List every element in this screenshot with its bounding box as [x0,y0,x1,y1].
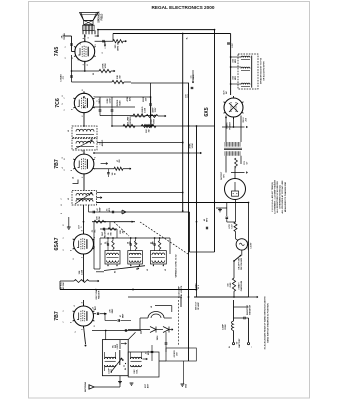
svg-text:MFD: MFD [235,75,237,80]
svg-text:2W: 2W [99,216,101,219]
svg-text:1W: 1W [148,129,150,132]
svg-text:7: 7 [63,322,65,323]
svg-text:470: 470 [106,242,109,245]
svg-text:MEASURED TO CHASSIS GND: MEASURED TO CHASSIS GND [284,181,287,212]
svg-text:6.3V: 6.3V [232,43,234,48]
svg-text:6: 6 [71,170,73,171]
svg-text:PADDER 2: PADDER 2 [97,288,100,299]
svg-text:VARIABLE COND. S1 S2: VARIABLE COND. S1 S2 [175,254,178,278]
svg-text:3: 3 [62,157,64,158]
svg-text:+: + [228,346,232,348]
svg-text:FUSE: FUSE [225,324,227,330]
svg-text:5: 5 [61,213,63,214]
svg-text:25 V: 25 V [198,284,200,289]
svg-text:MFD: MFD [235,58,237,63]
svg-text:7B7: 7B7 [54,159,60,169]
svg-text:MMF: MMF [112,308,114,313]
svg-text:MFD: MFD [148,350,150,355]
svg-text:DIAL LIGHTS: DIAL LIGHTS [180,285,183,298]
svg-text:S2: S2 [135,242,137,244]
svg-text:S3: S3 [115,271,117,273]
svg-text:RF AMP: RF AMP [197,302,200,310]
svg-text:MEG: MEG [99,98,101,103]
svg-text:1: 1 [64,110,66,111]
svg-text:6: 6 [94,326,96,327]
svg-text:GND: GND [186,383,188,388]
svg-text:7: 7 [64,98,66,99]
svg-text:6: 6 [71,250,73,251]
svg-text:8: 8 [82,230,84,231]
svg-text:150V: 150V [155,107,157,112]
svg-text:ON VOLUME: ON VOLUME [241,257,243,270]
svg-text:6: 6 [64,159,66,160]
svg-text:L1,L2,L3,L4 = 455 KC TRIM (2): L1,L2,L3,L4 = 455 KC TRIM (2) [271,182,274,212]
svg-text:2W: 2W [122,230,124,233]
svg-text:S1,S2,S3,S4 ARE REAR OF BAND S: S1,S2,S3,S4 ARE REAR OF BAND SWITCH AT A… [264,296,267,349]
svg-text:220: 220 [130,242,132,245]
svg-text:6X5: 6X5 [204,107,210,116]
svg-text:8: 8 [82,90,84,91]
svg-text:6: 6 [71,109,73,110]
svg-text:7C6: 7C6 [55,98,61,108]
svg-text:OHM: OHM [153,119,155,124]
svg-text:3: 3 [88,37,90,38]
svg-text:6: 6 [73,258,75,259]
svg-text:6: 6 [71,322,73,323]
svg-text:LOOP: LOOP [117,343,119,349]
svg-text:1: 1 [65,47,67,48]
svg-text:L9: L9 [151,306,153,308]
svg-text:-: - [250,346,254,347]
svg-text:6SA7: 6SA7 [54,237,60,250]
svg-text:8: 8 [94,246,96,247]
svg-text:ALL VOLTAGES AT 117V AC LINE: ALL VOLTAGES AT 117V AC LINE [281,180,284,214]
svg-text:C BIAS: C BIAS [60,74,63,82]
svg-text:2: 2 [82,329,84,330]
svg-text:MFD: MFD [206,217,208,222]
svg-text:2: 2 [64,170,66,171]
svg-text:6: 6 [62,95,64,96]
svg-text:1/2W: 1/2W [145,108,147,113]
svg-text:OHM 1W: OHM 1W [118,41,120,51]
svg-text:7: 7 [78,59,80,60]
svg-text:L2: L2 [147,269,149,271]
svg-text:AVC: AVC [94,305,97,310]
svg-text:470K: 470K [102,63,105,69]
svg-text:ALL RESISTORS 1/2 W UNLESS: ALL RESISTORS 1/2 W UNLESS [276,181,279,213]
svg-text:1: 1 [63,311,65,312]
svg-text:CONTROL: CONTROL [130,115,132,126]
svg-text:ANTENNA: ANTENNA [84,382,87,392]
svg-text:3: 3 [95,45,97,46]
svg-text:2: 2 [65,58,67,59]
svg-text:1/2W: 1/2W [82,270,84,275]
svg-text:5: 5 [62,103,64,104]
svg-text:AC SW: AC SW [62,283,65,290]
svg-text:7: 7 [61,198,63,199]
svg-text:OHM: OHM [230,282,232,287]
svg-text:6.3V: 6.3V [231,224,233,229]
svg-text:FIELD: FIELD [101,13,103,20]
svg-text:7B7: 7B7 [54,311,60,321]
svg-text:SPEAKER: SPEAKER [98,11,101,22]
svg-text:TO-1B: TO-1B [64,33,66,40]
svg-text:5: 5 [75,331,77,332]
svg-text:2: 2 [102,52,104,53]
svg-text:10W: 10W [188,94,190,98]
svg-text:REGAL ELECTRONICS 2000: REGAL ELECTRONICS 2000 [152,5,215,10]
svg-text:SW: SW [110,232,112,235]
svg-text:LIGHT: LIGHT [250,242,252,249]
svg-text:6: 6 [72,58,74,59]
svg-text:BATTERY: BATTERY [238,338,241,348]
svg-text:1: 1 [63,238,65,239]
svg-text:POWER: POWER [230,122,232,130]
svg-text:L3: L3 [165,269,167,271]
svg-text:W: W [114,173,116,175]
svg-text:BIAS: BIAS [119,100,122,106]
svg-text:MMF: MMF [99,206,101,211]
svg-text:OR ELECTRO SPKR: OR ELECTRO SPKR [264,61,266,81]
svg-text:MFD: MFD [109,207,111,212]
svg-text:S1: S1 [152,242,154,244]
svg-text:1/2W: 1/2W [110,99,112,104]
svg-text:BAND SWITCH SHOWN IN #1 POSITI: BAND SWITCH SHOWN IN #1 POSITION [267,303,270,343]
svg-text:7A5: 7A5 [54,47,60,57]
svg-text:VIBRATOR: VIBRATOR [248,304,251,315]
svg-text:1/2W: 1/2W [192,144,194,149]
svg-text:PADDER: PADDER [103,229,106,238]
svg-text:3: 3 [94,157,96,158]
svg-text:8: 8 [87,64,89,65]
svg-text:TRANS: TRANS [226,122,229,130]
svg-text:CANDOHM: CANDOHM [240,280,243,291]
svg-text:-7V: -7V [63,76,65,80]
svg-text:AVC: AVC [129,96,132,101]
svg-text:8: 8 [61,204,63,205]
svg-text:C1 TRIMMER = 3-30 MMF PADDER: C1 TRIMMER = 3-30 MMF PADDER [274,180,277,214]
svg-text:SPEAKER SOCKET TO P-M: SPEAKER SOCKET TO P-M [260,58,263,84]
svg-text:4: 4 [73,306,76,307]
svg-text:2: 2 [63,250,65,251]
